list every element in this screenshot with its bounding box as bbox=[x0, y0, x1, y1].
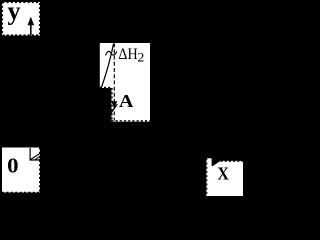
label A bbox=[119, 91, 134, 111]
svg-text:0: 0 bbox=[7, 153, 18, 177]
node X (x-axis label box with notch) bbox=[206, 158, 243, 196]
svg-text:2: 2 bbox=[137, 51, 144, 65]
svg-text:ΔH: ΔH bbox=[118, 46, 138, 63]
label 0 bbox=[7, 153, 18, 177]
node У (y-axis label box, marching-ants selection) bbox=[2, 2, 40, 36]
label X bbox=[217, 164, 229, 184]
ants on top edge (right part) bbox=[221, 160, 244, 162]
label ΔH2 bbox=[118, 46, 144, 65]
ants on bottom edge bbox=[2, 191, 40, 193]
break squiggle (tilde) bbox=[106, 51, 117, 55]
ants on bottom edge bbox=[111, 120, 150, 122]
ants on notch top edge bbox=[100, 86, 112, 88]
ants on left edge bbox=[206, 158, 208, 196]
svg-text:у: у bbox=[8, 0, 21, 26]
svg-text:X: X bbox=[217, 164, 229, 184]
y-axis arrow bbox=[28, 17, 35, 36]
dashed measurement line (vertical) bbox=[113, 43, 115, 120]
trajectory curve (lower segment through A) bbox=[111, 104, 118, 114]
ants on right edge bbox=[39, 148, 41, 193]
trajectory curve (upper) bbox=[101, 44, 113, 89]
hatched support corner bbox=[30, 148, 41, 161]
label у bbox=[8, 0, 21, 26]
arrowhead at A (downward) bbox=[111, 101, 117, 108]
svg-text:A: A bbox=[119, 91, 134, 111]
node 0 (origin label box) bbox=[2, 148, 40, 193]
ants on lower-left edge bbox=[111, 88, 113, 122]
column strip (white pasted region, L-shaped) bbox=[100, 43, 150, 122]
